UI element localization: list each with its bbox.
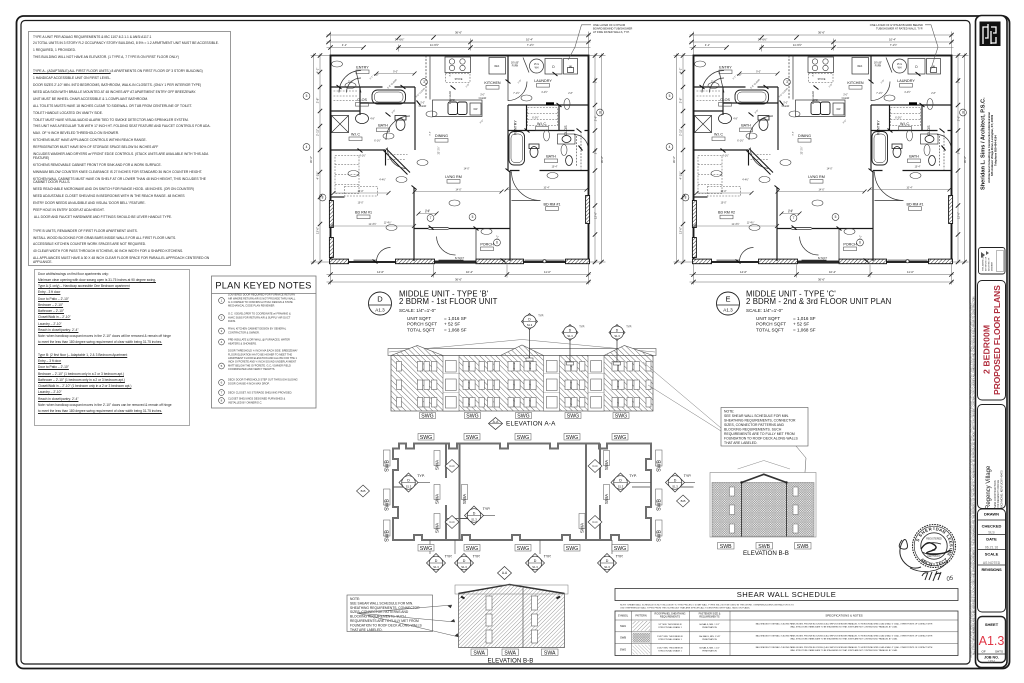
- titleblock drawn/checked/date/scale/revisions box: [978, 509, 1006, 612]
- svg-text:TUB/SHOWER AT RATED WALS, TYP.: TUB/SHOWER AT RATED WALS, TYP.: [876, 27, 923, 31]
- svg-text:TYP.: TYP.: [445, 555, 453, 559]
- svg-text:DECK CLOSET. NO STORAGE SHELVI: DECK CLOSET. NO STORAGE SHELVING PROVIDE…: [228, 391, 292, 395]
- svg-text:DATE: DATE: [986, 537, 997, 542]
- window slots: [486, 596, 538, 643]
- floor lines in recesses: [443, 374, 604, 393]
- svg-text:SWG: SWG: [614, 546, 626, 552]
- svg-text:THAT ARE LABELED.: THAT ARE LABELED.: [350, 628, 383, 632]
- svg-text:SWG: SWG: [517, 546, 529, 552]
- svg-text:SHEATHING REQUIREMENTS, CONNEC: SHEATHING REQUIREMENTS, CONNECTOR: [350, 606, 420, 610]
- svg-text:AT FIRE RATED WALLS, TYP.: AT FIRE RATED WALLS, TYP.: [593, 30, 630, 34]
- title: plan D: [369, 290, 498, 333]
- svg-text:+ 52 SF: + 52 SF: [793, 322, 809, 327]
- svg-text:D: D: [473, 512, 476, 516]
- svg-text:STRUCTURAL GRADE 1: STRUCTURAL GRADE 1: [658, 638, 682, 641]
- windows: [730, 487, 799, 533]
- svg-text:LOUVERED DOOR REQUIRED FOR FUR: LOUVERED DOOR REQUIRED FOR FURNACE RETUR…: [228, 293, 295, 297]
- svg-text:D: D: [407, 479, 410, 483]
- svg-text:CHECKED: CHECKED: [982, 524, 1002, 529]
- svg-text:HVAC SUBS FOR RETURN AIR & SUP: HVAC SUBS FOR RETURN AIR & SUPPLY AIR DU…: [228, 315, 291, 319]
- svg-text:06.21.16: 06.21.16: [985, 546, 998, 550]
- svg-text:STRUCTURAL GRADE 1: STRUCTURAL GRADE 1: [658, 626, 682, 629]
- svg-text:ONE LAYER OF GYPSUM BOARD BEHI: ONE LAYER OF GYPSUM BOARD BEHIND: [870, 23, 923, 27]
- gypsum note right plan: [870, 23, 938, 72]
- svg-text:S1.3: S1.3: [618, 485, 624, 489]
- svg-text:C-C: C-C: [449, 464, 455, 468]
- C-C section diamonds: [445, 460, 602, 529]
- svg-text:KENTUCKY: KENTUCKY: [927, 555, 940, 558]
- titleblock sheet title (red): [978, 281, 1006, 401]
- architect stamp seal: [899, 525, 955, 583]
- svg-text:PLAN KEYED NOTES: PLAN KEYED NOTES: [215, 281, 311, 291]
- svg-text:REQUIREMENTS: REQUIREMENTS: [660, 616, 680, 619]
- svg-text:D: D: [534, 559, 537, 563]
- svg-text:AIR WHERE RETURN AIR IS NOT PR: AIR WHERE RETURN AIR IS NOT PROVIDE THRU…: [228, 296, 296, 300]
- svg-text:ONE LAYER OF GYPSUM: ONE LAYER OF GYPSUM: [593, 23, 626, 27]
- inner scribble signature across stamp: [921, 543, 950, 554]
- svg-text:SWA: SWA: [604, 493, 609, 504]
- svg-text:SWG: SWG: [615, 414, 627, 420]
- svg-text:S1.3: S1.3: [604, 565, 610, 569]
- svg-text:NOTE:: NOTE:: [724, 410, 734, 414]
- svg-text:SWB: SWB: [385, 530, 391, 542]
- NOTE box (right, for elevation B-B right): [721, 408, 808, 487]
- gypsum note left plan: [568, 23, 632, 60]
- svg-text:A1.3: A1.3: [723, 308, 733, 313]
- svg-text:S1.3: S1.3: [461, 565, 467, 569]
- svg-text:05: 05: [946, 575, 955, 583]
- svg-text:ONLY REFERENCE WALL TYPES FROM: ONLY REFERENCE WALL TYPES FROM THIS SCHE…: [620, 607, 750, 610]
- left door widths box: [34, 269, 190, 426]
- svg-text:BD RM #2: BD RM #2: [718, 211, 735, 215]
- svg-text:SHEET: SHEET: [985, 622, 999, 627]
- svg-text:A1.3: A1.3: [375, 308, 385, 313]
- eave band: [388, 349, 656, 356]
- svg-text:SWA: SWA: [435, 522, 440, 533]
- svg-text:2 BDRM - 2nd & 3rd FLOOR UNIT: 2 BDRM - 2nd & 3rd FLOOR UNIT PLAN: [746, 297, 891, 306]
- svg-text:Sheridan L. Sims / Architect,: Sheridan L. Sims / Architect, P.S.C.: [981, 97, 987, 190]
- svg-text:SWG: SWG: [466, 414, 478, 420]
- svg-text:SPECIFICATIONS & NOTES: SPECIFICATIONS & NOTES: [825, 614, 862, 618]
- svg-text:TYP.: TYP.: [579, 325, 585, 329]
- svg-text:G.C./OWNER TO CONFIRM w/ HVAC: G.C./OWNER TO CONFIRM w/ HVAC DESIGN & S…: [228, 300, 293, 304]
- svg-text:PRE-INSULATE & DRYWALL @ FURNA: PRE-INSULATE & DRYWALL @ FURNACES, WATER: [228, 338, 290, 342]
- title: plan E: [717, 290, 892, 333]
- svg-text:CLOSET SHELVINGS DESIGNED FURN: CLOSET SHELVINGS DESIGNED FURNISHED &: [228, 397, 286, 401]
- svg-text:1834: 1834: [988, 660, 995, 664]
- svg-text:G.C. / DEVELOPER TO COORDINATE: G.C. / DEVELOPER TO COORDINATE w/ FRAMIN…: [228, 312, 291, 316]
- svg-text:= 1,016 SF: = 1,016 SF: [444, 316, 467, 321]
- svg-text:D: D: [463, 559, 466, 563]
- svg-text:S: S: [949, 544, 954, 547]
- svg-text:STRUCTURAL GRADE 1: STRUCTURAL GRADE 1: [658, 650, 682, 653]
- svg-text:FINAL KITCHEN CABINET DESIGN B: FINAL KITCHEN CABINET DESIGN BY GENERAL: [228, 327, 287, 331]
- floor plan D (left): [303, 31, 605, 285]
- svg-text:MEMBER: MEMBER: [992, 261, 994, 271]
- svg-text:SWB: SWB: [385, 499, 391, 511]
- SWA labels: [471, 649, 558, 656]
- svg-text:INSTALLED BY OWNER/G.C.: INSTALLED BY OWNER/G.C.: [228, 400, 262, 404]
- svg-text:10d NAILS, MIN. 1 5/8": 10d NAILS, MIN. 1 5/8": [699, 635, 721, 638]
- title ELEVATION A-A: [489, 418, 557, 430]
- svg-text:SWB: SWB: [657, 530, 663, 542]
- svg-text:8d NAILS, MIN. 1 1/2": 8d NAILS, MIN. 1 1/2": [699, 623, 720, 626]
- svg-text:SHTS: SHTS: [995, 650, 1003, 654]
- svg-text:SCALE: 1/4"=1'-0": SCALE: 1/4"=1'-0": [399, 308, 436, 313]
- leader lines to right note box: [643, 362, 721, 431]
- SWG labels bottom row: [418, 545, 628, 552]
- svg-text:CONTRACTOR & OWNER.: CONTRACTOR & OWNER.: [228, 330, 260, 334]
- svg-text:RICHMOND, KENTUCKY 40475: RICHMOND, KENTUCKY 40475: [999, 470, 1003, 508]
- interior shear walls: [393, 444, 694, 541]
- svg-text:PROPOSED FLOOR PLANS: PROPOSED FLOOR PLANS: [992, 285, 1002, 395]
- svg-text:SWB: SWB: [657, 460, 663, 472]
- data rows: [620, 624, 626, 652]
- svg-text:NAIL SPACING TO BE MAX. 4" ALO: NAIL SPACING TO BE MAX. 4" ALONG PANEL E…: [756, 646, 933, 649]
- svg-text:NAIL SPACING TO BE MAX. 3" ALO: NAIL SPACING TO BE MAX. 3" ALONG PANEL E…: [756, 634, 933, 637]
- facade base: [391, 356, 653, 412]
- svg-text:Regency Village: Regency Village: [986, 465, 992, 509]
- signature flourish left: [899, 539, 921, 568]
- vertical general-note text strip along right edge of drawing area: [970, 296, 976, 658]
- svg-text:SWG: SWG: [420, 435, 432, 441]
- svg-text:Telephone 859-494-4194: Telephone 859-494-4194: [993, 135, 997, 166]
- svg-text:BOARD BEHIND TUB/SHOWER: BOARD BEHIND TUB/SHOWER: [593, 27, 632, 31]
- svg-text:S1.3: S1.3: [471, 518, 477, 522]
- svg-text:2 BEDR00M: 2 BEDR00M: [982, 325, 992, 374]
- elevation marker diamonds above: [522, 314, 626, 341]
- svg-text:REGISTERED: REGISTERED: [926, 538, 942, 541]
- ELEVATION B-B (right): [710, 461, 816, 557]
- svg-text:SWA: SWA: [473, 651, 485, 657]
- svg-text:REQUIREMENTS: REQUIREMENTS: [699, 616, 719, 619]
- svg-text:SWG: SWG: [614, 435, 626, 441]
- svg-text:RUNS.: RUNS.: [228, 319, 236, 323]
- svg-text:1/2" MIN. THICKNESS III: 1/2" MIN. THICKNESS III: [658, 624, 682, 626]
- svg-text:SWA: SWA: [462, 493, 467, 504]
- svg-text:+ 52 SF: + 52 SF: [444, 322, 460, 327]
- titleblock architect name (vertical): [981, 97, 998, 190]
- svg-text:TYP.: TYP.: [473, 555, 481, 559]
- svg-text:THE AMERICAN: THE AMERICAN: [982, 255, 985, 271]
- svg-text:ELEVATION A-A: ELEVATION A-A: [506, 421, 556, 428]
- svg-text:SWG: SWG: [566, 435, 578, 441]
- svg-text:FLOOR ELEVATION HA TO BE HIGHE: FLOOR ELEVATION HA TO BE HIGHER TO MEET …: [228, 352, 292, 356]
- titleblock outer: [976, 16, 1008, 668]
- svg-text:PENETRATION: PENETRATION: [702, 638, 717, 641]
- svg-text:SCALE: 1/4"=1'-0": SCALE: 1/4"=1'-0": [746, 308, 783, 313]
- svg-text:SWA: SWA: [580, 522, 585, 533]
- floor plan E (right): [666, 31, 968, 285]
- svg-text:WALL STRUCTURE. PANELS ARE TO: WALL STRUCTURE. PANELS ARE TO BE STAGGER…: [790, 626, 898, 629]
- svg-text:SWB: SWB: [657, 499, 663, 511]
- svg-text:A-A: A-A: [502, 571, 508, 575]
- svg-text:SWG: SWG: [466, 435, 478, 441]
- svg-text:SWA: SWA: [435, 493, 440, 504]
- svg-text:B-B: B-B: [681, 499, 686, 503]
- centre gable thick outline: [742, 474, 787, 482]
- titleblock project name box: [978, 405, 1006, 510]
- svg-text:PORCH SQFT: PORCH SQFT: [407, 322, 437, 327]
- svg-text:WALL STRUCTURE. PANELS ARE TO: WALL STRUCTURE. PANELS ARE TO BE STAGGER…: [790, 649, 898, 652]
- svg-text:DOOR CAN BE 4 INCH MAX DROP.: DOOR CAN BE 4 INCH MAX DROP.: [228, 381, 270, 385]
- svg-text:D: D: [606, 559, 609, 563]
- SWG labels top row: [418, 434, 628, 441]
- svg-text:I: I: [933, 562, 934, 567]
- svg-text:E: E: [725, 295, 730, 304]
- svg-text:PORCH SQFT: PORCH SQFT: [756, 322, 786, 327]
- svg-text:WALL STRUCTURE. PANELS ARE TO: WALL STRUCTURE. PANELS ARE TO BE STAGGER…: [790, 637, 898, 640]
- svg-text:THAT ARE LABELED.: THAT ARE LABELED.: [724, 441, 757, 445]
- svg-text:MECHANICAL CODE PLAN REVIEWER.: MECHANICAL CODE PLAN REVIEWER.: [228, 304, 275, 308]
- svg-text:REQUIREMENTS ARE TO FULLY MET: REQUIREMENTS ARE TO FULLY MET FROM: [724, 432, 795, 436]
- svg-text:SCALE: SCALE: [985, 552, 999, 557]
- svg-text:NOTE:: NOTE:: [350, 597, 360, 601]
- gables: [391, 346, 443, 356]
- svg-text:SIZES, CONNECTOR PATTERNS AND: SIZES, CONNECTOR PATTERNS AND: [724, 423, 784, 427]
- svg-text:SWG: SWG: [466, 546, 478, 552]
- svg-text:TYP.: TYP.: [629, 474, 637, 478]
- left general notes box: [28, 31, 231, 266]
- svg-text:15/32" MIN. THICKNESS III: 15/32" MIN. THICKNESS III: [657, 636, 683, 638]
- crenellated outline: [393, 444, 651, 541]
- svg-text:DOOR THRESHOLD ¾ INCH MA EACH: DOOR THRESHOLD ¾ INCH MA EACH SIDE. BREE…: [228, 349, 298, 353]
- thin connector lines to markers: [393, 483, 695, 555]
- svg-text:SWG: SWG: [517, 435, 529, 441]
- plan E label fix: BD RM #2: [712, 207, 741, 220]
- date 5/7/05: [922, 571, 941, 581]
- svg-text:TYP.: TYP.: [483, 507, 491, 511]
- svg-text:C-C: C-C: [449, 520, 455, 524]
- svg-text:BLOCKING REQUIREMENTS. SUCH: BLOCKING REQUIREMENTS. SUCH: [724, 428, 782, 432]
- svg-text:SWA: SWA: [504, 651, 516, 657]
- svg-text:OF: OF: [982, 650, 986, 654]
- SHEAR WALL SCHEDULE table: [615, 589, 958, 656]
- svg-text:SWB: SWB: [720, 544, 732, 550]
- svg-text:A-A: A-A: [493, 420, 499, 424]
- shear wall key plan: [357, 434, 696, 580]
- recessed bays (white): [443, 356, 604, 412]
- svg-text:SHEAR WALL SCHEDULE: SHEAR WALL SCHEDULE: [737, 590, 836, 599]
- svg-text:D: D: [377, 295, 383, 304]
- svg-text:C-C: C-C: [592, 520, 598, 524]
- SWA labels vertical (interior): [434, 451, 610, 529]
- svg-text:SWG: SWG: [567, 414, 579, 420]
- svg-text:SWA: SWA: [435, 459, 440, 470]
- ELEVATION A-A drawing: [388, 314, 721, 432]
- PLAN KEYED NOTES box: [212, 276, 317, 408]
- svg-text:DECK DOOR THRESHOLD STEP OUT T: DECK DOOR THRESHOLD STEP OUT THROUGH SLI…: [228, 378, 298, 382]
- svg-text:AS NOTED: AS NOTED: [983, 561, 1001, 565]
- svg-text:S1.3: S1.3: [672, 485, 678, 489]
- B-B diamonds: [357, 485, 690, 507]
- svg-text:GENERAL NOTE: SHEAR WALL SCHED: GENERAL NOTE: SHEAR WALL SCHEDULE IS NOT…: [970, 302, 973, 658]
- svg-text:15/32" MIN. THICKNESS III: 15/32" MIN. THICKNESS III: [657, 648, 683, 650]
- svg-text:SWA: SWA: [620, 624, 626, 628]
- bottom D/S1.3 markers: [427, 554, 617, 573]
- svg-text:HEATERS & SHOWERS.: HEATERS & SHOWERS.: [228, 341, 257, 345]
- svg-text:= 1,016 SF: = 1,016 SF: [793, 316, 816, 321]
- ridge lines: [389, 340, 655, 353]
- svg-text:SWG: SWG: [420, 546, 432, 552]
- svg-text:S1.3: S1.3: [406, 485, 412, 489]
- svg-text:UNIT SQFT: UNIT SQFT: [756, 316, 780, 321]
- svg-text:SEE SHEAR WALL SCHEDULE FOR MI: SEE SHEAR WALL SCHEDULE FOR MIN.: [724, 414, 789, 418]
- svg-text:DRAWN: DRAWN: [984, 512, 999, 517]
- svg-text:PENETRATION: PENETRATION: [702, 626, 717, 629]
- svg-text:NAIL SPACING TO BE MAX. 4" ALO: NAIL SPACING TO BE MAX. 4" ALONG PANEL E…: [756, 623, 933, 626]
- svg-text:= 1,068 SF: = 1,068 SF: [444, 327, 467, 332]
- svg-text:SWG: SWG: [421, 414, 433, 420]
- svg-text:FOUNDATION TO ROOF DECK ALONG: FOUNDATION TO ROOF DECK ALONG WALLS: [350, 623, 422, 627]
- svg-text:NOTE: SHEAR WALL SCHEDULE IS N: NOTE: SHEAR WALL SCHEDULE IS NOT INCLUSI…: [620, 604, 794, 607]
- svg-text:S1.3: S1.3: [614, 334, 620, 338]
- svg-text:SLS: SLS: [988, 531, 995, 535]
- svg-text:ARCHITECTS: ARCHITECTS: [988, 257, 991, 271]
- svg-text:D: D: [674, 479, 677, 483]
- A-A diamond bottom: [498, 567, 512, 580]
- svg-text:8d NAILS, MIN. 1 1/2": 8d NAILS, MIN. 1 1/2": [699, 647, 720, 650]
- svg-text:TYP.: TYP.: [544, 555, 552, 559]
- svg-text:D: D: [435, 559, 438, 563]
- svg-text:PENETRATION: PENETRATION: [702, 650, 717, 653]
- svg-text:MATT BELOW THE GYPCRETE. G.C./: MATT BELOW THE GYPCRETE. G.C./ OWNER FIE…: [228, 363, 291, 367]
- svg-text:TOTAL SQFT: TOTAL SQFT: [407, 327, 435, 332]
- svg-text:SWA: SWA: [544, 651, 556, 657]
- svg-text:COORDINATED AND VERIFY HEIGHTS: COORDINATED AND VERIFY HEIGHTS.: [228, 367, 275, 371]
- svg-text:SYMBOL: SYMBOL: [618, 615, 629, 618]
- NOTE box (bottom, for elevation B-B bottom): [347, 595, 459, 637]
- svg-text:SWB: SWB: [797, 544, 809, 550]
- svg-text:A1.3: A1.3: [979, 634, 1005, 648]
- svg-text:I: I: [933, 526, 934, 531]
- svg-text:SWB: SWB: [620, 636, 626, 640]
- svg-text:TYP.: TYP.: [616, 555, 624, 559]
- ELEVATION B-B (bottom centre): [455, 585, 568, 665]
- titleblock sheet number box: [978, 617, 1006, 664]
- svg-text:S1.3: S1.3: [532, 565, 538, 569]
- svg-text:INCH GYPCRETE AND ¼ INCH SOUND: INCH GYPCRETE AND ¼ INCH SOUND UNDERLAYM…: [228, 360, 297, 364]
- svg-text:APARTMENT FLOOR ELEVATION AND: APARTMENT FLOOR ELEVATION AND ALLOW FOR …: [228, 356, 298, 360]
- svg-text:INSTITUTE OF: INSTITUTE OF: [986, 256, 988, 271]
- svg-text:SHEATHING REQUIREMENTS, CONNEC: SHEATHING REQUIREMENTS, CONNECTOR: [724, 419, 796, 423]
- svg-text:= 1,068 SF: = 1,068 SF: [793, 327, 816, 332]
- svg-text:ELEVATION B-B: ELEVATION B-B: [743, 550, 789, 557]
- SWG labels below elevation: [420, 413, 630, 420]
- svg-text:TYP.: TYP.: [538, 314, 544, 318]
- svg-text:SEE SHEAR WALL SCHEDULE FOR MI: SEE SHEAR WALL SCHEDULE FOR MIN.: [350, 601, 413, 605]
- svg-text:FOUNDATION TO ROOF DECK ALONG: FOUNDATION TO ROOF DECK ALONG WALLS: [724, 437, 798, 441]
- svg-text:C-C: C-C: [592, 464, 598, 468]
- svg-text:SWA: SWA: [604, 459, 609, 470]
- svg-text:TYP.: TYP.: [417, 474, 425, 478]
- SWB labels: [718, 543, 812, 550]
- svg-text:SWB: SWB: [385, 460, 391, 472]
- titleblock AIA stamp box: [979, 248, 1006, 275]
- svg-text:S: S: [915, 538, 921, 543]
- svg-text:SWG: SWG: [566, 546, 578, 552]
- svg-text:TYP.: TYP.: [626, 325, 632, 329]
- SWB labels vertical: [384, 450, 663, 536]
- svg-text:SWG: SWG: [620, 647, 626, 651]
- svg-text:TOTAL SQFT: TOTAL SQFT: [756, 327, 784, 332]
- svg-text:S1.3: S1.3: [527, 323, 533, 327]
- svg-text:SWG: SWG: [517, 414, 529, 420]
- svg-text:S1.3: S1.3: [433, 565, 439, 569]
- svg-text:REVISIONS: REVISIONS: [982, 567, 1003, 572]
- pattern swatches: [633, 621, 651, 631]
- svg-text:B-B: B-B: [361, 489, 366, 493]
- svg-text:PATTERN: PATTERN: [635, 615, 646, 618]
- svg-text:R: R: [928, 526, 932, 532]
- D/S1.3 markers (plan): [399, 473, 685, 525]
- svg-text:TYP.: TYP.: [684, 474, 692, 478]
- svg-text:ELEVATION B-B: ELEVATION B-B: [488, 658, 534, 665]
- svg-text:D: D: [619, 479, 622, 483]
- windows: [397, 361, 652, 409]
- svg-text:UNIT SQFT: UNIT SQFT: [407, 316, 431, 321]
- svg-text:S1.3: S1.3: [567, 334, 573, 338]
- svg-text:2 BDRM - 1st FLOOR UNIT: 2 BDRM - 1st FLOOR UNIT: [399, 297, 498, 306]
- titleblock logo: [980, 22, 1001, 47]
